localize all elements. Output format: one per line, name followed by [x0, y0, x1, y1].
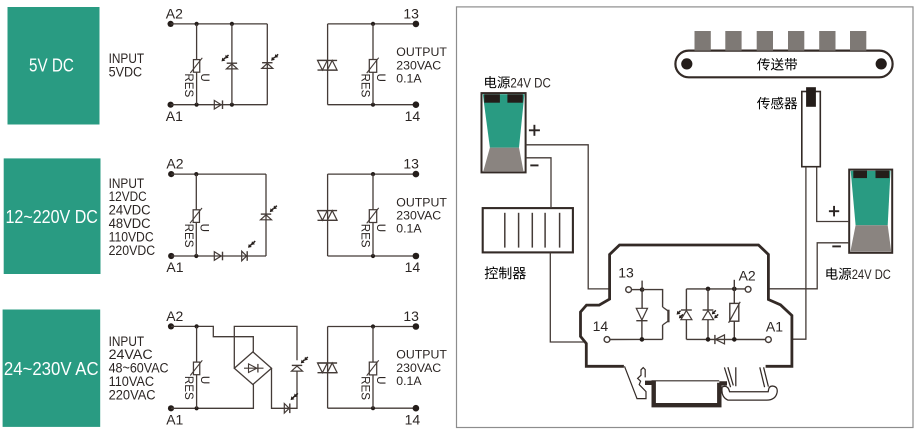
svg-text:U: U — [198, 376, 211, 384]
LED indicator right (row1) — [262, 54, 279, 68]
relay node A1 junction — [732, 337, 737, 342]
relay node 14 junction — [640, 337, 645, 342]
svg-text:14: 14 — [405, 108, 421, 124]
left DIN clip — [625, 366, 647, 398]
diode series input (row2) — [214, 252, 222, 261]
varistor U RES (row3) — [182, 360, 211, 400]
svg-text:A2: A2 — [739, 267, 756, 283]
node varistor top (row2) — [194, 172, 198, 176]
node output varistor bottom (row1) — [371, 103, 375, 107]
wire varistor branch (row3) — [196, 326, 198, 408]
terminal A2 (row3) — [168, 323, 174, 329]
svg-text:U: U — [374, 224, 387, 232]
diode series input (row1) — [214, 100, 222, 109]
svg-text:13: 13 — [403, 156, 419, 172]
label conveyor 传送带 — [757, 58, 797, 71]
node output varistor bottom (row2) — [371, 254, 375, 258]
terminal 13 (row1) — [413, 21, 420, 28]
label OUTPUT 230VAC 0.1A (row3) — [396, 348, 447, 388]
controller internal lines — [505, 213, 560, 248]
node varistor bottom (row1) — [195, 103, 199, 107]
svg-text:24V DC: 24V DC — [852, 267, 891, 282]
svg-text:RES: RES — [359, 74, 372, 98]
left supply tab 1 — [484, 94, 500, 102]
right supply gray base — [850, 225, 891, 251]
svg-text:A1: A1 — [166, 108, 183, 124]
relay wire A1 rail — [686, 338, 765, 340]
wire top rail A2 (row2) — [171, 173, 266, 175]
wire output top rail 13 (row1) — [328, 23, 416, 25]
svg-text:5VDC: 5VDC — [109, 65, 143, 80]
node varistor bottom (row3) — [195, 406, 199, 410]
svg-text:RES: RES — [182, 73, 195, 97]
LED indicator right (row2) — [261, 206, 278, 220]
terminal 14 (row2) — [413, 253, 420, 260]
wire varistor branch (row1) — [196, 24, 198, 105]
DIN rail profile — [645, 383, 727, 405]
terminal A2 (row1) — [168, 21, 174, 27]
conveyor belt body — [675, 51, 892, 78]
node LED branch top (row1) — [230, 22, 234, 26]
triac output (row3) — [318, 363, 338, 373]
right supply plus sign — [829, 206, 839, 217]
conveyor items — [695, 31, 867, 51]
DIN rail top line — [652, 380, 720, 382]
conveyor wheel left — [681, 58, 692, 69]
wire left supply plus to relay 13 — [526, 145, 610, 289]
wire output top rail 13 (row3) — [328, 326, 416, 328]
wire output varistor branch (row3) — [372, 327, 374, 409]
svg-text:U: U — [374, 74, 387, 82]
green voltage label box row 2 — [4, 158, 101, 274]
wire bottom rail A1 (row3) — [171, 385, 253, 409]
svg-text:A2: A2 — [166, 5, 183, 21]
right DIN clip — [722, 367, 777, 400]
relay terminal 13 — [626, 287, 632, 293]
node varistor top (row1) — [195, 22, 199, 26]
right supply tab 1 — [853, 171, 867, 178]
varistor U RES output (row1) — [359, 58, 388, 98]
wire triac branch (row3) — [327, 327, 329, 409]
wire triac branch (row2) — [327, 174, 329, 256]
label sensor 传感器 — [757, 97, 797, 110]
wire right branch (row1) — [266, 24, 268, 105]
svg-text:0.1A: 0.1A — [396, 72, 422, 86]
relay module outline — [581, 245, 792, 366]
wire controller to relay 14 — [550, 252, 585, 342]
svg-text:RES: RES — [359, 224, 372, 248]
application panel border — [457, 7, 914, 428]
label OUTPUT 230VAC 0.1A (row1) — [396, 45, 447, 85]
svg-text:24~230V AC: 24~230V AC — [4, 359, 99, 379]
svg-text:230VAC: 230VAC — [396, 361, 441, 375]
varistor U RES output (row3) — [359, 360, 388, 400]
wire output varistor branch (row2) — [372, 174, 374, 256]
terminal 13 (row3) — [413, 323, 420, 330]
relay node A2 junction — [732, 287, 737, 292]
relay diode freewheel — [636, 290, 647, 340]
left supply plus sign — [529, 125, 540, 136]
svg-text:13: 13 — [618, 264, 634, 280]
varistor U RES (row1) — [182, 58, 211, 98]
left supply green cell — [483, 94, 525, 147]
triac output (row1) — [318, 60, 338, 70]
wire output bottom rail 14 (row3) — [328, 407, 416, 409]
triac output (row2) — [318, 211, 338, 221]
right supply tab 2 — [876, 171, 890, 178]
svg-text:U: U — [374, 376, 387, 384]
svg-text:12~220V DC: 12~220V DC — [6, 207, 98, 227]
left supply minus sign — [530, 164, 538, 166]
node output varistor bottom (row3) — [371, 406, 375, 410]
label controller 控制器 — [485, 266, 526, 279]
LED opto (row3) — [292, 357, 309, 371]
relay diode A1 — [715, 335, 725, 344]
relay wire top to transistor — [642, 290, 663, 307]
svg-text:OUTPUT: OUTPUT — [396, 195, 447, 209]
node output varistor top (row3) — [371, 324, 375, 328]
svg-text:220VAC: 220VAC — [109, 387, 156, 402]
left power supply body — [482, 93, 526, 172]
svg-text:RES: RES — [182, 224, 195, 248]
relay node 13 junction — [640, 287, 645, 292]
relay phototransistor — [663, 307, 669, 339]
wire output bottom rail 14 (row1) — [328, 104, 416, 106]
svg-text:230VAC: 230VAC — [396, 58, 441, 72]
right power supply body — [849, 170, 892, 253]
relay terminal A2 — [745, 286, 751, 292]
wire bottom rail A1 (row1) — [171, 104, 268, 106]
controller box — [483, 208, 573, 252]
input voltage list row 3 — [109, 334, 169, 403]
wire sensor right lead to supply plus — [817, 167, 850, 222]
green voltage label box row 1 — [8, 7, 100, 125]
wire triac branch (row1) — [327, 24, 329, 105]
wire output varistor branch (row1) — [372, 24, 374, 105]
wire right supply minus to relay A2 — [768, 243, 849, 289]
relay stub above 13 junction — [641, 281, 643, 290]
wire top rail A2 (row1) — [171, 23, 268, 25]
right supply green cell — [851, 171, 891, 225]
svg-text:13: 13 — [403, 308, 419, 324]
relay LED opto — [681, 289, 692, 340]
terminal A1 (row3) — [168, 405, 174, 411]
LED series bottom (row3) — [284, 393, 298, 413]
svg-text:A2: A2 — [166, 156, 183, 172]
wire LED chain (row3) — [272, 368, 298, 408]
relay stub above A2 junction — [733, 280, 735, 289]
relay LED indicator — [703, 289, 719, 340]
label right supply 电源24V DC — [826, 267, 891, 282]
svg-text:A1: A1 — [166, 412, 183, 428]
wire varistor branch (row2) — [195, 174, 197, 256]
wire output bottom rail 14 (row2) — [328, 255, 416, 257]
svg-text:A1: A1 — [766, 319, 783, 335]
relay wire A2 top rail — [686, 288, 745, 290]
node output varistor top (row1) — [371, 22, 375, 26]
left supply gray base — [483, 148, 523, 172]
svg-text:14: 14 — [405, 259, 421, 275]
node LED branch bottom (row1) — [230, 103, 234, 107]
relay terminal A1 — [766, 337, 772, 343]
relay terminal 14 — [604, 337, 610, 343]
terminal 14 (row1) — [413, 101, 420, 108]
terminal 13 (row2) — [413, 171, 420, 178]
wire top rail A2 stepped (row3) — [171, 326, 253, 352]
wire right branch (row2) — [265, 174, 267, 256]
LED series input (row2) — [242, 241, 256, 261]
wire LED branch (row1) — [231, 24, 233, 105]
svg-text:220VDC: 220VDC — [109, 243, 156, 258]
node output varistor top (row2) — [371, 172, 375, 176]
svg-text:24V DC: 24V DC — [510, 75, 551, 90]
left supply tab 2 — [507, 94, 522, 102]
svg-text:14: 14 — [593, 318, 609, 334]
svg-text:A2: A2 — [166, 308, 183, 324]
label left supply 电源24V DC — [485, 75, 551, 90]
green voltage label box row 3 — [3, 310, 101, 427]
bridge rectifier (row3) — [234, 352, 271, 385]
svg-text:OUTPUT: OUTPUT — [396, 348, 447, 362]
svg-text:RES: RES — [182, 376, 195, 400]
svg-text:0.1A: 0.1A — [396, 374, 422, 388]
relay opto light arrows — [679, 311, 681, 313]
svg-text:230VAC: 230VAC — [396, 209, 441, 223]
relay node LED2 bottom — [706, 337, 711, 342]
LED indicator middle (row1) — [222, 55, 238, 69]
terminal A1 (row2) — [168, 253, 174, 259]
node varistor bottom (row2) — [194, 254, 198, 258]
wire bridge AC2 loop (row3) — [234, 326, 297, 368]
sensor head — [806, 87, 816, 107]
input voltage list row 2 — [109, 176, 156, 258]
wire sensor left lead to relay A1 — [792, 167, 806, 340]
terminal 14 (row3) — [413, 405, 420, 412]
wire left supply minus to controller — [526, 158, 551, 208]
svg-text:RES: RES — [359, 376, 372, 400]
sensor body — [802, 92, 821, 167]
wire bottom rail A1 (row2) — [171, 255, 266, 257]
svg-text:14: 14 — [405, 411, 421, 427]
label OUTPUT 230VAC 0.1A (row2) — [396, 195, 447, 235]
relay wire 14 rail — [610, 338, 663, 340]
svg-text:13: 13 — [403, 5, 419, 21]
varistor U RES (row2) — [182, 208, 211, 248]
input voltage list row 1 — [109, 51, 145, 79]
relay varistor — [729, 289, 741, 340]
conveyor wheel right — [876, 58, 887, 69]
relay node LED2 top — [706, 287, 711, 292]
node varistor top (row3) — [195, 324, 199, 328]
terminal A1 (row1) — [168, 102, 174, 108]
svg-text:OUTPUT: OUTPUT — [396, 45, 447, 59]
svg-text:U: U — [198, 224, 211, 232]
svg-text:5V DC: 5V DC — [29, 56, 74, 76]
svg-text:0.1A: 0.1A — [396, 222, 422, 236]
right supply minus sign — [832, 245, 841, 247]
svg-text:U: U — [198, 73, 211, 81]
wire output top rail 13 (row2) — [328, 173, 416, 175]
varistor U RES output (row2) — [359, 208, 388, 248]
relay wire 13 to junction — [632, 289, 643, 291]
terminal A2 (row2) — [168, 171, 174, 177]
svg-text:A1: A1 — [166, 259, 183, 275]
